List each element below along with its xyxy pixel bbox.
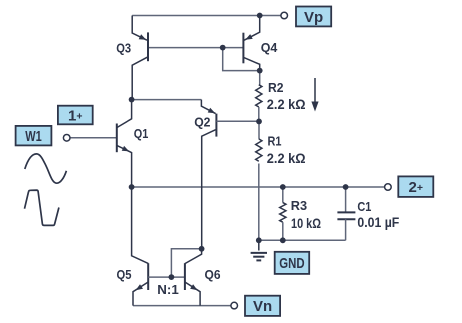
svg-text:W1: W1	[25, 128, 42, 145]
svg-text:10 kΩ: 10 kΩ	[291, 215, 321, 231]
svg-text:1+: 1+	[68, 107, 82, 124]
svg-text:Q6: Q6	[205, 268, 221, 282]
svg-text:Q2: Q2	[194, 116, 210, 130]
svg-text:Q4: Q4	[261, 41, 278, 55]
svg-text:C1: C1	[357, 200, 371, 214]
svg-text:R3: R3	[291, 199, 307, 213]
svg-text:2+: 2+	[409, 179, 423, 196]
svg-text:Vp: Vp	[304, 9, 323, 26]
svg-text:0.01 µF: 0.01 µF	[357, 214, 399, 230]
svg-text:2.2 kΩ: 2.2 kΩ	[267, 150, 306, 166]
svg-text:R2: R2	[268, 81, 284, 95]
svg-text:Vn: Vn	[253, 298, 272, 315]
svg-text:N:1: N:1	[157, 283, 179, 297]
svg-text:2.2 kΩ: 2.2 kΩ	[267, 96, 306, 112]
svg-text:Q1: Q1	[134, 127, 149, 141]
svg-text:GND: GND	[279, 255, 304, 272]
svg-text:R1: R1	[268, 134, 282, 148]
svg-text:Q3: Q3	[116, 41, 131, 55]
svg-text:Q5: Q5	[117, 268, 132, 282]
